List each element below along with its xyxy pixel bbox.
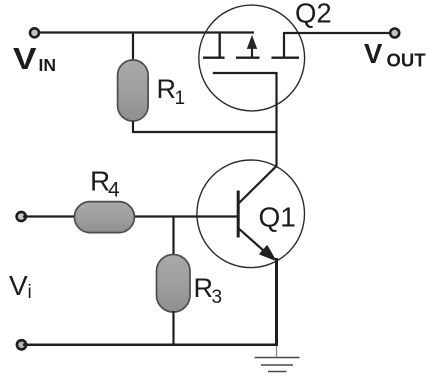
label Vi <box>9 270 32 303</box>
wire R3 bottom stub <box>172 311 174 345</box>
resistor R4 <box>74 202 134 233</box>
terminal VOUT <box>390 29 399 38</box>
wire R1 bottom to gate node <box>133 121 277 132</box>
transistor Q1 <box>197 160 305 268</box>
wire R3 top stub <box>172 217 174 257</box>
label R1 <box>157 74 186 109</box>
svg-text:V: V <box>13 41 37 76</box>
svg-text:V: V <box>9 270 28 301</box>
wire top rail VIN to Q2 source <box>36 31 254 33</box>
svg-text:i: i <box>28 282 32 303</box>
wire R1 top stub <box>132 33 134 63</box>
wire input to base <box>23 215 237 217</box>
label R3 <box>194 273 223 308</box>
terminal VIN <box>30 28 39 37</box>
svg-text:R: R <box>157 74 177 104</box>
wire Q2 drain to VOUT <box>284 32 392 34</box>
svg-text:IN: IN <box>39 55 57 75</box>
wire emitter to ground <box>275 258 278 346</box>
svg-text:3: 3 <box>212 287 223 308</box>
svg-text:1: 1 <box>175 88 186 109</box>
mosfet Q2 <box>199 5 305 111</box>
label Q2 <box>295 0 332 29</box>
terminal Vi <box>17 340 26 349</box>
label R4 <box>90 166 120 202</box>
resistor R1 <box>118 60 149 121</box>
svg-text:4: 4 <box>108 179 120 202</box>
label VIN <box>13 41 56 76</box>
ground <box>255 346 300 372</box>
svg-text:V: V <box>364 38 383 69</box>
terminal input <box>17 212 26 221</box>
label VOUT <box>364 38 426 71</box>
wire bottom rail <box>23 344 278 347</box>
svg-text:Q2: Q2 <box>295 0 332 29</box>
label Q1 <box>259 202 296 233</box>
wire gate to collector vertical <box>275 72 277 167</box>
svg-text:OUT: OUT <box>387 50 427 71</box>
resistor R3 <box>157 255 191 313</box>
svg-text:R: R <box>194 273 214 303</box>
svg-text:Q1: Q1 <box>259 202 296 233</box>
